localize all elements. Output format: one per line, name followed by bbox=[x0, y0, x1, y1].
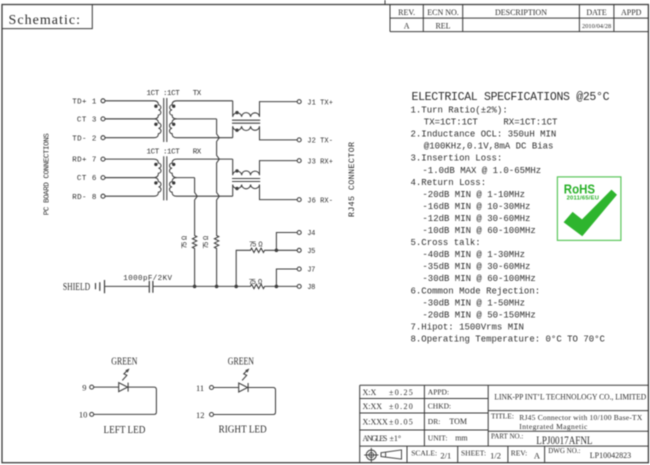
pin 11 bbox=[196, 383, 214, 393]
svg-text:SHIELD: SHIELD bbox=[63, 282, 91, 293]
svg-text:APPD:: APPD: bbox=[428, 387, 449, 396]
svg-text:RIGHT LED: RIGHT LED bbox=[219, 424, 267, 435]
pin J4 bbox=[297, 230, 315, 238]
rev table header text bbox=[398, 8, 642, 17]
svg-text:TX: TX bbox=[193, 90, 202, 98]
third angle projection symbol bbox=[364, 448, 401, 462]
svg-text:J4: J4 bbox=[307, 230, 315, 238]
spec list bbox=[411, 106, 606, 345]
svg-text:-30dB MIN @ 60-100MHz: -30dB MIN @ 60-100MHz bbox=[422, 274, 535, 284]
svg-text:2010/04/28: 2010/04/28 bbox=[582, 23, 611, 30]
svg-text:REL: REL bbox=[435, 22, 450, 31]
wire LED loop to pin10 bbox=[94, 387, 157, 414]
svg-text:RD- 8: RD- 8 bbox=[72, 194, 96, 202]
svg-text:RJ45 CONNECTOR: RJ45 CONNECTOR bbox=[347, 142, 357, 217]
svg-text:X:X: X:X bbox=[363, 388, 377, 397]
svg-text:1000pF/2KV: 1000pF/2KV bbox=[123, 275, 172, 283]
title block tolerance column bbox=[363, 388, 413, 443]
junction dots on bus bbox=[193, 285, 278, 289]
svg-text:8.Operating Temperature: 0°C T: 8.Operating Temperature: 0°C TO 70°C bbox=[411, 335, 606, 345]
wire to J4 bbox=[276, 233, 297, 251]
transformer T2 core bbox=[164, 156, 167, 200]
svg-text:X:XX: X:XX bbox=[363, 402, 383, 411]
svg-text:12: 12 bbox=[196, 410, 205, 420]
svg-text:PC BOARD CONNECTIONS: PC BOARD CONNECTIONS bbox=[43, 133, 51, 215]
pin 8 RD- bbox=[72, 194, 105, 202]
svg-text:J5: J5 bbox=[307, 248, 315, 256]
wire ground bus with resistor R4 bbox=[153, 284, 297, 288]
svg-text:±0.20: ±0.20 bbox=[389, 402, 413, 411]
svg-text:11: 11 bbox=[196, 383, 204, 393]
svg-text:75 Ω: 75 Ω bbox=[181, 236, 189, 249]
title field bbox=[491, 412, 643, 432]
svg-text:9: 9 bbox=[82, 382, 86, 392]
svg-text:1CT :1CT: 1CT :1CT bbox=[147, 90, 181, 98]
svg-text:GREEN: GREEN bbox=[228, 357, 254, 368]
frame top tick bbox=[384, 0, 386, 5]
svg-text:5.Cross talk:: 5.Cross talk: bbox=[411, 238, 481, 248]
svg-text:-30dB MIN @ 1-50MHz: -30dB MIN @ 1-50MHz bbox=[422, 298, 525, 308]
svg-text:6.Common Mode Rejection:: 6.Common Mode Rejection: bbox=[411, 286, 541, 296]
svg-text:J2 TX-: J2 TX- bbox=[307, 138, 333, 146]
svg-text:10: 10 bbox=[79, 410, 88, 420]
choke CM2 polarity dots bbox=[235, 169, 238, 190]
wire RX centre tap with hop and resistor R1 bbox=[192, 178, 197, 287]
pin 7 RD+ bbox=[72, 157, 105, 165]
svg-text:7.Hipot: 1500Vrms MIN: 7.Hipot: 1500Vrms MIN bbox=[411, 322, 524, 332]
svg-text:ELECTRICAL SPECFICATIONS @25°C: ELECTRICAL SPECFICATIONS @25°C bbox=[412, 91, 610, 104]
rev table row A bbox=[404, 22, 611, 31]
svg-text:mm: mm bbox=[455, 434, 468, 443]
pin 2 TD- bbox=[72, 135, 105, 143]
choke CM2 bottom winding bbox=[233, 185, 298, 200]
pin J5 bbox=[297, 248, 315, 256]
svg-text:REV.: REV. bbox=[398, 8, 415, 17]
svg-text:RJ45 Connector with 10/100 Bas: RJ45 Connector with 10/100 Base-TX bbox=[519, 413, 643, 422]
svg-text:4.Return Loss:: 4.Return Loss: bbox=[411, 178, 487, 188]
svg-text:REV:: REV: bbox=[511, 448, 528, 457]
svg-text:1/2: 1/2 bbox=[490, 451, 501, 461]
LED D1 light arrow bbox=[122, 369, 129, 381]
pin J8 bbox=[297, 284, 315, 292]
shield pin marker bbox=[96, 280, 105, 293]
title block grid bbox=[360, 385, 649, 462]
transformer T1 core bbox=[164, 98, 167, 142]
svg-text:-16dB MIN @ 10-30MHz: -16dB MIN @ 10-30MHz bbox=[422, 202, 530, 212]
svg-text:±1°: ±1° bbox=[390, 434, 402, 443]
LED D1 bbox=[119, 383, 128, 392]
svg-text:SHEET:: SHEET: bbox=[461, 448, 486, 457]
svg-text:J6 RX-: J6 RX- bbox=[307, 197, 333, 205]
svg-text:-35dB MIN @ 30-60MHz: -35dB MIN @ 30-60MHz bbox=[422, 262, 530, 272]
svg-text:±0.05: ±0.05 bbox=[389, 418, 413, 427]
svg-text:A: A bbox=[534, 451, 541, 461]
svg-text:2.Inductance OCL: 350uH MIN: 2.Inductance OCL: 350uH MIN bbox=[411, 130, 557, 140]
svg-text:J3 RX+: J3 RX+ bbox=[307, 158, 333, 166]
svg-text:CT 3: CT 3 bbox=[77, 117, 97, 125]
svg-text:CHKD:: CHKD: bbox=[428, 401, 451, 410]
choke CM2 top winding bbox=[233, 159, 298, 175]
choke CM1 core bbox=[232, 120, 260, 123]
svg-text:J7: J7 bbox=[307, 267, 315, 275]
svg-text:75 Ω: 75 Ω bbox=[203, 236, 211, 249]
svg-text:TD- 2: TD- 2 bbox=[72, 135, 96, 143]
transformer T2 primary windings bbox=[105, 159, 161, 196]
svg-text:TITLE:: TITLE: bbox=[491, 412, 514, 421]
svg-text:-1.0dB MAX @ 1.0-65MHz: -1.0dB MAX @ 1.0-65MHz bbox=[422, 166, 541, 176]
scale sheet rev dwg row bbox=[411, 447, 631, 461]
part no field bbox=[491, 433, 593, 447]
capacitor C1 bbox=[149, 281, 153, 293]
svg-text:RX: RX bbox=[193, 148, 202, 156]
transformer T1 polarity dots bbox=[154, 105, 175, 127]
RoHS checkmark bbox=[564, 190, 617, 237]
svg-text:LPJ0017AFNL: LPJ0017AFNL bbox=[536, 433, 592, 447]
schematic title box bbox=[2, 5, 92, 29]
svg-text:TD+ 1: TD+ 1 bbox=[72, 98, 97, 106]
wire pin9 to LED bbox=[94, 386, 119, 388]
choke CM1 top winding bbox=[233, 101, 298, 117]
svg-text:1CT :1CT: 1CT :1CT bbox=[147, 148, 181, 156]
svg-text:LINK-PP INT’L TECHNOLOGY CO.,: LINK-PP INT’L TECHNOLOGY CO., LIMITED bbox=[494, 391, 646, 401]
svg-text:DR:: DR: bbox=[428, 417, 441, 426]
svg-text:RD+ 7: RD+ 7 bbox=[72, 157, 96, 165]
svg-text:X:XXX: X:XXX bbox=[363, 418, 389, 427]
choke CM2 core bbox=[232, 179, 260, 182]
pin J1 TX+ bbox=[297, 99, 333, 107]
svg-text:3.Insertion Loss:: 3.Insertion Loss: bbox=[411, 154, 503, 164]
svg-text:ANGLES: ANGLES bbox=[363, 434, 388, 443]
svg-text:@100KHz,0.1V,8mA DC Bias: @100KHz,0.1V,8mA DC Bias bbox=[424, 142, 554, 152]
svg-text:LEFT LED: LEFT LED bbox=[104, 425, 146, 436]
choke CM1 bottom winding bbox=[233, 126, 298, 140]
LED D2 bbox=[239, 383, 248, 392]
svg-text:A: A bbox=[404, 22, 410, 31]
pin J6 RX- bbox=[297, 197, 333, 205]
svg-text:SCALE:: SCALE: bbox=[411, 448, 437, 457]
rev table bbox=[390, 5, 648, 32]
svg-text:PART NO.:: PART NO.: bbox=[491, 433, 523, 441]
svg-text:TX=1CT:1CT: TX=1CT:1CT bbox=[424, 118, 479, 128]
label T1 ratio bbox=[147, 90, 202, 98]
wire TX centre tap with hops and resistor R2 bbox=[214, 119, 219, 287]
RoHS logo box bbox=[557, 177, 621, 241]
transformer T1 secondary windings bbox=[170, 101, 233, 138]
pin 10 bbox=[79, 410, 94, 420]
svg-text:DWG NO.:: DWG NO.: bbox=[548, 447, 580, 455]
svg-text:75 Ω: 75 Ω bbox=[249, 242, 263, 250]
wire shield to capacitor bbox=[105, 285, 150, 287]
choke CM1 polarity dots bbox=[235, 111, 238, 132]
junction dot J5 branch bbox=[275, 249, 279, 253]
svg-text:DATE: DATE bbox=[586, 8, 607, 17]
title block middle column bbox=[428, 387, 469, 442]
svg-text:DESCRIPTION: DESCRIPTION bbox=[495, 8, 547, 17]
svg-text:UNIT:: UNIT: bbox=[428, 434, 448, 443]
svg-text:RoHS: RoHS bbox=[564, 182, 595, 196]
svg-text:GREEN: GREEN bbox=[111, 357, 137, 368]
pin J2 TX- bbox=[297, 138, 333, 146]
wire branch resistor R3 to J5 bbox=[236, 248, 297, 286]
svg-text:-20dB MIN @ 50-150MHz: -20dB MIN @ 50-150MHz bbox=[422, 310, 535, 320]
transformer T2 secondary windings bbox=[170, 159, 233, 196]
pin 3 CT bbox=[77, 117, 105, 125]
pin J7 bbox=[297, 267, 315, 275]
transformer T2 polarity dots bbox=[154, 163, 175, 185]
svg-text:75 Ω: 75 Ω bbox=[249, 279, 263, 287]
wire to J7 bbox=[276, 269, 297, 286]
svg-text:2/1: 2/1 bbox=[440, 451, 451, 461]
transformer T1 primary windings bbox=[105, 101, 161, 138]
svg-text:Integrated Magnetic: Integrated Magnetic bbox=[519, 422, 588, 431]
svg-text:1.Turn Ratio(±2%):: 1.Turn Ratio(±2%): bbox=[411, 106, 508, 116]
svg-text:CT 6: CT 6 bbox=[77, 175, 97, 183]
pin 12 bbox=[196, 410, 214, 420]
svg-text:±0.25: ±0.25 bbox=[389, 388, 413, 397]
svg-text:Schematic:: Schematic: bbox=[9, 13, 81, 28]
svg-text:ECN NO.: ECN NO. bbox=[427, 8, 459, 17]
svg-text:TOM: TOM bbox=[449, 417, 467, 426]
svg-text:-40dB MIN @ 1-30MHz: -40dB MIN @ 1-30MHz bbox=[422, 250, 525, 260]
svg-text:APPD: APPD bbox=[621, 8, 642, 17]
svg-text:-10dB MIN @ 60-100MHz: -10dB MIN @ 60-100MHz bbox=[422, 226, 535, 236]
pin 9 bbox=[82, 382, 93, 392]
LED D2 light arrow bbox=[242, 369, 249, 381]
wire pin11 to LED bbox=[214, 387, 239, 389]
svg-text:-12dB MIN @ 30-60MHz: -12dB MIN @ 30-60MHz bbox=[422, 214, 530, 224]
pin J3 RX+ bbox=[297, 158, 333, 166]
svg-text:2011/65/EU: 2011/65/EU bbox=[567, 196, 599, 202]
svg-text:RX=1CT:1CT: RX=1CT:1CT bbox=[503, 118, 558, 128]
svg-text:J1 TX+: J1 TX+ bbox=[307, 99, 333, 107]
svg-text:-20dB MIN @ 1-10MHz: -20dB MIN @ 1-10MHz bbox=[422, 190, 525, 200]
svg-text:LP10042823: LP10042823 bbox=[590, 451, 631, 460]
pin 1 TD+ bbox=[72, 98, 105, 106]
wire LED loop to pin12 bbox=[214, 388, 276, 415]
svg-text:J8: J8 bbox=[307, 284, 315, 292]
label T2 ratio bbox=[147, 148, 202, 156]
pin 6 CT bbox=[77, 175, 105, 183]
